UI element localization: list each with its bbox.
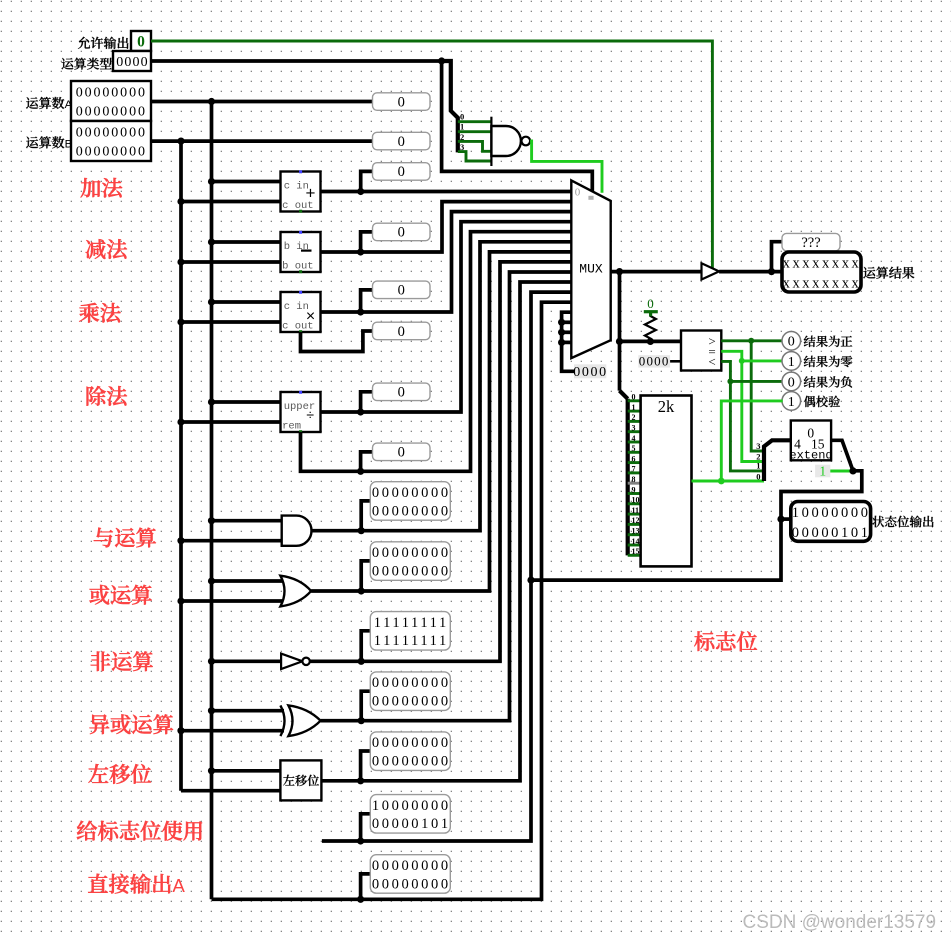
probe multiplier value bbox=[373, 281, 431, 299]
input pin B label 运算数B bbox=[26, 136, 72, 150]
wire divider probe branch bbox=[361, 392, 373, 412]
wire net B to probe bbox=[151, 139, 373, 143]
svg-text:11: 11 bbox=[632, 506, 640, 515]
probe divider value bbox=[373, 383, 431, 401]
input pin EN label 允许输出 bbox=[78, 37, 129, 49]
svg-text:<: < bbox=[708, 354, 715, 369]
wire A branch 2 bbox=[212, 240, 281, 244]
NOT gate U7 (非运算) bbox=[281, 654, 302, 669]
wire A branch 6 bbox=[212, 579, 285, 583]
svg-text:×: × bbox=[306, 308, 316, 326]
output LED 3 结果为负 bbox=[782, 372, 801, 391]
wire cmp eq to LED2 (结果为零) bbox=[721, 351, 782, 361]
svg-text:00000000: 00000000 bbox=[372, 675, 451, 691]
svg-text:00000000: 00000000 bbox=[372, 735, 451, 751]
svg-text:2: 2 bbox=[632, 413, 636, 422]
splitter SP2 legs to ROM bbox=[628, 399, 641, 402]
wire OP select to MUX bbox=[442, 61, 593, 193]
svg-text:00000000: 00000000 bbox=[372, 563, 451, 579]
svg-text:00000000: 00000000 bbox=[372, 485, 451, 501]
wire flag probe branch bbox=[361, 814, 371, 841]
svg-text:???: ??? bbox=[801, 235, 820, 251]
svg-text:0: 0 bbox=[460, 112, 464, 122]
svg-text:00000000: 00000000 bbox=[372, 545, 451, 561]
wire OR out bbox=[311, 252, 571, 591]
svg-text:0: 0 bbox=[575, 187, 581, 199]
svg-text:0: 0 bbox=[788, 335, 795, 350]
wire to status output pin bbox=[781, 517, 791, 521]
wire multiplier out bbox=[321, 212, 572, 312]
constant C2 0000 comparator input bbox=[638, 355, 670, 367]
svg-text:0: 0 bbox=[632, 393, 636, 402]
wire ROM parity out bbox=[692, 480, 765, 483]
wire XOR probe branch bbox=[361, 691, 370, 721]
wire NOT probe branch bbox=[361, 631, 370, 662]
label 偶校验 bbox=[804, 396, 840, 407]
wire divider remainder bbox=[301, 232, 572, 472]
wire MUX out down branch bbox=[618, 272, 622, 391]
wire B branch 2 bbox=[181, 260, 281, 264]
AND gate U5 (与运算) bbox=[282, 516, 312, 546]
label 结果为零 bbox=[804, 356, 852, 367]
svg-text:9: 9 bbox=[632, 485, 636, 494]
svg-text:8: 8 bbox=[632, 475, 636, 484]
label 与运算 (red) bbox=[94, 528, 156, 548]
wire A branch 9 bbox=[212, 769, 285, 773]
svg-text:1: 1 bbox=[632, 403, 636, 412]
wire buffer out bbox=[719, 270, 782, 274]
wire A branch 5 bbox=[212, 519, 285, 523]
svg-text:CSDN @wonder13579: CSDN @wonder13579 bbox=[743, 912, 937, 933]
svg-text:xxxxxxxx: xxxxxxxx bbox=[783, 256, 862, 272]
probe flag value bbox=[370, 795, 450, 834]
wire branch to result probe bbox=[772, 242, 783, 272]
wire XOR out bbox=[321, 272, 572, 721]
svg-text:0: 0 bbox=[756, 471, 760, 481]
label 加法 (red) bbox=[81, 178, 123, 198]
wire NAND out to MUX enable bbox=[530, 141, 602, 193]
wire net B vertical bbox=[179, 141, 183, 791]
svg-text:1: 1 bbox=[788, 355, 795, 370]
label 异或运算 (red) bbox=[90, 714, 174, 734]
svg-text:0: 0 bbox=[398, 94, 405, 110]
wire B branch 7 bbox=[181, 729, 284, 733]
probe NOT value bbox=[370, 612, 450, 651]
subtractor U2 (减法) bbox=[281, 232, 321, 272]
wire flag byte (给标志位使用) bbox=[322, 292, 571, 841]
constant C1 0000 for unused MUX inputs bbox=[574, 364, 606, 378]
wire A branch 3 bbox=[212, 300, 281, 304]
wire constant to MUX inputs 12-15 bbox=[562, 312, 574, 371]
probe AND value bbox=[370, 482, 450, 521]
label 左移位 (red) bbox=[88, 764, 151, 784]
input pin OP label 运算类型 bbox=[61, 58, 111, 70]
svg-text:5: 5 bbox=[632, 444, 636, 453]
svg-text:0000: 0000 bbox=[116, 55, 148, 70]
svg-text:00000000: 00000000 bbox=[76, 86, 147, 101]
output LED 2 结果为零 bbox=[782, 352, 801, 371]
svg-text:11111111: 11111111 bbox=[374, 633, 449, 649]
svg-text:0000: 0000 bbox=[639, 354, 670, 369]
svg-text:0: 0 bbox=[398, 324, 405, 340]
svg-text:12: 12 bbox=[632, 516, 640, 525]
wire multiplier probe branch bbox=[361, 290, 373, 312]
svg-text:00000000: 00000000 bbox=[372, 754, 451, 770]
svg-text:10: 10 bbox=[632, 496, 640, 505]
shifter U9 (左移位) box bbox=[280, 760, 321, 800]
wire to comparator bbox=[620, 340, 682, 344]
svg-text:00000000: 00000000 bbox=[372, 503, 451, 519]
svg-text:MUX: MUX bbox=[579, 261, 603, 276]
wire parity up to LED4 bbox=[721, 401, 782, 481]
controlled buffer U11 bbox=[702, 263, 720, 279]
wire NOT out bbox=[310, 262, 572, 661]
svg-text:0: 0 bbox=[398, 385, 405, 401]
wire eq down to combiner bit2 bbox=[742, 361, 764, 462]
svg-text:10000000: 10000000 bbox=[792, 505, 871, 521]
svg-text:3: 3 bbox=[460, 142, 464, 152]
wire OP select net bbox=[151, 59, 442, 63]
input pin A label 运算数A bbox=[26, 97, 72, 111]
probe result ??? bbox=[782, 233, 840, 250]
svg-text:14: 14 bbox=[632, 537, 640, 546]
probe remainder value bbox=[373, 443, 431, 461]
splitter SP2 spine bbox=[626, 399, 630, 556]
output LED 4 偶校验 bbox=[782, 392, 801, 411]
label 直接输出A (red) bbox=[88, 874, 185, 896]
svg-text:xxxxxxxx: xxxxxxxx bbox=[783, 276, 862, 292]
svg-text:11111111: 11111111 bbox=[374, 615, 449, 631]
wire MUX out to ROM splitter bbox=[620, 391, 628, 399]
svg-text:0: 0 bbox=[398, 445, 405, 461]
wire direct A out (直接输出A) bbox=[212, 302, 572, 899]
svg-text:0: 0 bbox=[788, 375, 795, 390]
svg-text:00000000: 00000000 bbox=[76, 145, 147, 160]
splitter SP3 spine bbox=[764, 440, 791, 481]
label 非运算 (red) bbox=[91, 651, 153, 671]
wire AND out bbox=[311, 242, 571, 531]
probe A value bbox=[373, 93, 431, 111]
node status output tap bbox=[777, 516, 784, 523]
wire multiplier carry-out bbox=[301, 331, 373, 352]
wire subtractor out bbox=[321, 202, 572, 252]
probe subtractor value bbox=[373, 223, 431, 241]
multiplier U3 (乘法) bbox=[281, 292, 321, 332]
svg-text:00000000: 00000000 bbox=[372, 858, 451, 874]
svg-text:00000000: 00000000 bbox=[372, 694, 451, 710]
svg-text:6: 6 bbox=[632, 454, 636, 463]
comparator U12 bbox=[681, 331, 721, 371]
wire B branch 6 bbox=[181, 599, 284, 603]
svg-text:0000: 0000 bbox=[573, 365, 607, 380]
wire shifter probe branch bbox=[361, 751, 371, 781]
wire cmp gt to LED1 (结果为正) bbox=[721, 339, 782, 342]
divider U4 (除法) bbox=[281, 392, 321, 432]
wire adder probe branch bbox=[361, 171, 373, 191]
svg-text:4: 4 bbox=[632, 434, 636, 443]
wire B branch 3 bbox=[181, 320, 281, 324]
svg-text:A: A bbox=[172, 875, 185, 896]
splitter SP1 legs bbox=[458, 120, 492, 123]
output LED 1 结果为正 bbox=[782, 332, 801, 351]
wire B branch to shifter bbox=[181, 789, 284, 793]
input pin B 16-bit bbox=[71, 121, 151, 161]
svg-text:3: 3 bbox=[632, 424, 636, 433]
wire divider out bbox=[321, 222, 572, 412]
wire lt down to combiner bit1 bbox=[730, 381, 764, 471]
svg-text:0: 0 bbox=[647, 296, 654, 311]
pull resistor R1 bbox=[645, 314, 656, 342]
svg-text:1: 1 bbox=[819, 464, 826, 479]
wire net A vertical bbox=[210, 102, 214, 900]
probe OR value bbox=[370, 542, 450, 581]
output pin 状态位输出 16-bit bbox=[791, 502, 871, 542]
svg-text:00000101: 00000101 bbox=[792, 525, 871, 541]
label 乘法 (red) bbox=[79, 303, 120, 323]
wire AND probe branch bbox=[361, 501, 370, 531]
svg-text:00000000: 00000000 bbox=[372, 876, 451, 892]
wire A branch 4 bbox=[212, 400, 281, 404]
label 除法 (red) bbox=[87, 386, 127, 406]
bit extender U13 bbox=[791, 421, 831, 461]
svg-text:0: 0 bbox=[137, 34, 145, 51]
input pin A 16-bit bbox=[71, 81, 151, 121]
input pin EN 1-bit bbox=[131, 31, 151, 51]
wire B branch 5 bbox=[181, 539, 284, 543]
svg-text:0: 0 bbox=[398, 225, 405, 241]
label 或运算 (red) bbox=[89, 585, 151, 605]
input pin OP 4-bit bbox=[113, 51, 151, 71]
wire OR probe branch bbox=[361, 561, 370, 591]
label 标志位 (red) bbox=[694, 631, 757, 651]
wire OP to splitter bbox=[442, 61, 458, 152]
probe shifter value bbox=[370, 732, 450, 771]
svg-text:1: 1 bbox=[756, 461, 760, 471]
wire direct A probe branch bbox=[361, 874, 371, 899]
label 状态位输出 bbox=[872, 516, 933, 528]
svg-text:1: 1 bbox=[460, 122, 464, 132]
svg-text:0: 0 bbox=[398, 134, 405, 150]
wire B branch 4 bbox=[181, 420, 281, 424]
output pin 运算结果 16-bit bbox=[782, 252, 861, 292]
probe XOR value bbox=[370, 672, 450, 711]
svg-text:0: 0 bbox=[398, 283, 405, 299]
probe multiplier carry value bbox=[373, 322, 431, 340]
XOR gate U8 (异或运算) bbox=[280, 705, 284, 736]
wire cmp lt to LED3 (结果为负) bbox=[721, 361, 782, 381]
wire gt down to combiner bit3 bbox=[751, 341, 764, 451]
wire subtractor probe branch bbox=[361, 232, 373, 252]
svg-text:15: 15 bbox=[632, 547, 640, 556]
wire remainder probe branch bbox=[361, 452, 373, 471]
svg-text:+: + bbox=[305, 186, 315, 205]
adder U1 (加法) bbox=[281, 172, 321, 212]
wire shifter out bbox=[321, 282, 571, 781]
svg-text:÷: ÷ bbox=[306, 409, 314, 425]
wire adder out bbox=[321, 190, 572, 194]
svg-text:2k: 2k bbox=[658, 397, 675, 416]
svg-text:7: 7 bbox=[632, 465, 636, 474]
svg-text:1: 1 bbox=[788, 395, 795, 410]
ROM 2k bbox=[641, 396, 692, 567]
wire A branch 7 bbox=[212, 659, 285, 663]
NAND gate U10 bbox=[490, 117, 492, 166]
svg-text:00000000: 00000000 bbox=[76, 105, 147, 120]
svg-text:00000101: 00000101 bbox=[372, 816, 451, 832]
svg-text:b out: b out bbox=[282, 260, 314, 272]
svg-text:rem: rem bbox=[282, 420, 301, 432]
wire EN net (允许输出) bbox=[151, 41, 712, 268]
label 给标志位使用 (red) bbox=[77, 821, 202, 841]
label 结果为正 bbox=[804, 336, 852, 347]
constant C3 1 (bit width display) bbox=[815, 465, 830, 478]
node A distribution bbox=[208, 98, 215, 105]
wire B branch 1 bbox=[181, 200, 281, 204]
wire extender out bbox=[531, 440, 862, 580]
svg-text:extend: extend bbox=[789, 449, 832, 463]
label 减法 (red) bbox=[86, 239, 127, 259]
wire net A to probe bbox=[151, 100, 373, 104]
svg-text:2: 2 bbox=[460, 132, 464, 142]
OR gate U6 (或运算) bbox=[280, 576, 311, 607]
wire constant 1 join bbox=[830, 470, 853, 473]
svg-text:13: 13 bbox=[632, 527, 640, 536]
svg-text:3: 3 bbox=[756, 441, 760, 451]
probe B value bbox=[373, 132, 431, 150]
node extender-flag join bbox=[527, 577, 534, 584]
node B distribution bbox=[177, 138, 184, 145]
label 结果为负 bbox=[804, 376, 852, 388]
svg-text:10000000: 10000000 bbox=[372, 798, 451, 814]
label 运算结果 bbox=[863, 267, 914, 279]
svg-text:00000000: 00000000 bbox=[76, 126, 147, 141]
wire MUX output bbox=[611, 270, 702, 274]
probe adder value bbox=[373, 163, 431, 181]
wire A branch 8 bbox=[212, 709, 285, 713]
multiplexer MUX1 body bbox=[571, 180, 610, 358]
wire A branch 1 bbox=[212, 180, 281, 184]
probe direct A value bbox=[370, 855, 450, 894]
wire constant to comparator bbox=[670, 360, 681, 363]
svg-text:0: 0 bbox=[398, 164, 405, 180]
